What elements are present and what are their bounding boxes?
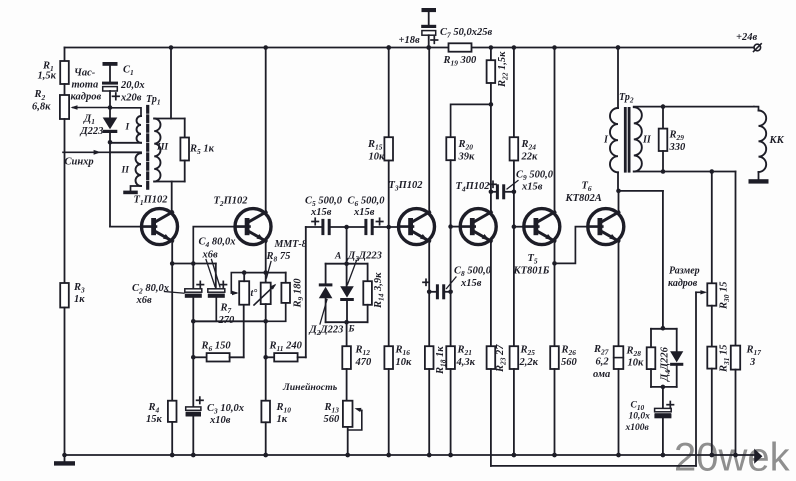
svg-text:III: III [156,143,168,153]
svg-text:Т3П102: Т3П102 [389,180,424,193]
svg-text:Д2Д223: Д2Д223 [309,325,344,338]
svg-text:10к: 10к [369,152,386,163]
svg-text:х6в: х6в [136,295,153,306]
svg-text:х15в: х15в [521,182,543,193]
svg-text:20,0х: 20,0х [120,80,145,91]
svg-text:R5 1к: R5 1к [189,144,215,157]
svg-text:20wek: 20wek [674,436,791,480]
svg-text:Д3Д223: Д3Д223 [347,251,382,264]
svg-text:6,8к: 6,8к [32,102,51,113]
svg-text:Д4Д226: Д4Д226 [660,346,673,382]
svg-text:Т1П102: Т1П102 [134,195,169,208]
svg-text:х15в: х15в [460,278,482,289]
svg-text:С8 500,0: С8 500,0 [454,266,492,279]
svg-text:х20в: х20в [120,93,142,104]
svg-text:тота: тота [72,80,99,91]
svg-text:1,5к: 1,5к [38,71,57,82]
svg-text:С9 500,0: С9 500,0 [516,170,554,183]
svg-text:2,2к: 2,2к [519,357,539,368]
svg-text:II: II [121,166,130,176]
svg-text:R22 1,5к: R22 1,5к [497,51,510,88]
svg-text:КТ802А: КТ802А [565,193,602,204]
svg-text:R14 3,9к: R14 3,9к [373,272,386,309]
svg-text:470: 470 [355,357,373,368]
svg-text:10к: 10к [396,357,413,368]
svg-text:I: I [125,123,130,133]
svg-text:х6в: х6в [202,250,219,261]
svg-text:С2 80,0х: С2 80,0х [132,283,169,296]
svg-text:х15в: х15в [310,207,332,218]
svg-text:Размер: Размер [669,266,700,277]
svg-text:R19 300: R19 300 [443,55,478,68]
svg-text:х15в: х15в [353,207,375,218]
svg-text:+24в: +24в [736,32,757,43]
svg-text:560: 560 [561,357,578,368]
svg-text:Т2П102: Т2П102 [214,196,249,209]
svg-text:R8 75: R8 75 [266,251,291,264]
svg-text:t°: t° [251,288,258,299]
svg-text:+18в: +18в [399,35,420,46]
svg-text:R9 180: R9 180 [293,278,306,309]
svg-text:39к: 39к [458,152,476,163]
svg-text:С4 80,0х: С4 80,0х [199,237,236,250]
svg-text:Б: Б [348,325,355,335]
svg-text:15к: 15к [146,414,163,425]
svg-text:560: 560 [324,414,341,425]
svg-text:С3 10,0х: С3 10,0х [207,403,244,416]
svg-text:1к: 1к [277,414,288,425]
svg-text:ММТ-8: ММТ-8 [274,239,307,250]
svg-text:кадров: кадров [71,92,102,103]
svg-text:4,3к: 4,3к [456,357,476,368]
svg-text:А: А [334,252,341,262]
svg-text:270: 270 [218,315,236,326]
svg-text:Час-: Час- [74,68,96,79]
svg-text:R11 240: R11 240 [269,341,303,354]
svg-text:R6 150: R6 150 [201,341,232,354]
svg-text:кадров: кадров [668,278,698,289]
svg-text:R18 1к: R18 1к [435,346,448,375]
svg-text:КТ801Б: КТ801Б [513,266,550,277]
svg-text:22к: 22к [521,152,539,163]
svg-text:Линейность: Линейность [282,382,338,393]
svg-text:II: II [642,135,652,146]
svg-text:Д223: Д223 [80,126,104,137]
svg-text:С10: С10 [631,401,645,413]
svg-text:6,2: 6,2 [596,357,610,368]
svg-text:330: 330 [669,142,687,153]
svg-text:1к: 1к [74,294,85,305]
svg-text:10,0х: 10,0х [629,412,651,422]
svg-text:ома: ома [593,369,610,380]
svg-text:х100в: х100в [625,423,650,433]
svg-text:3: 3 [749,357,755,368]
svg-text:Т4П102: Т4П102 [456,181,491,194]
svg-text:КК: КК [769,135,785,146]
svg-text:10к: 10к [628,358,645,369]
svg-text:R23 27: R23 27 [495,344,508,373]
svg-text:х10в: х10в [209,415,231,426]
svg-text:Синхр: Синхр [65,157,94,168]
